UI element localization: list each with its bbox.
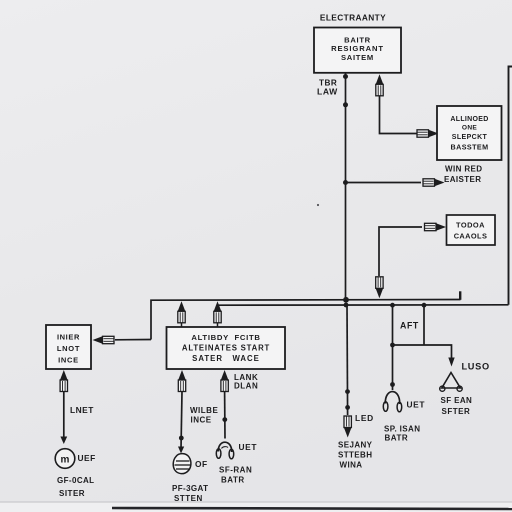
svg-text:LUSO: LUSO — [462, 362, 490, 372]
junction dot E1 — [345, 389, 350, 394]
svg-text:LAW: LAW — [317, 87, 338, 97]
junction dot B1 on upper bus — [343, 297, 349, 303]
stray mark — [317, 204, 319, 206]
junction dot A2 — [343, 102, 348, 107]
bottom border line — [112, 508, 512, 509]
svg-text:UET: UET — [239, 442, 258, 452]
wire drop at x392 to headset — [392, 305, 394, 390]
wire down from F10 — [181, 392, 182, 450]
svg-text:LNET: LNET — [70, 405, 94, 415]
block U1 battery resistant system — [314, 28, 401, 73]
svg-text:ONE: ONE — [462, 125, 477, 132]
label LANK DLAN — [234, 373, 258, 391]
svg-text:AFT: AFT — [400, 321, 419, 331]
fuse F5 with down arrow onto upper bus — [376, 277, 384, 299]
label PF-IGAT STTEN — [172, 484, 208, 503]
wire toda branch — [379, 227, 422, 276]
block U5 altibdy alternates sater — [167, 327, 286, 369]
svg-text:SLEPCKT: SLEPCKT — [452, 134, 488, 141]
junction dot E3 — [390, 343, 395, 348]
svg-text:BASSTEM: BASSTEM — [451, 143, 489, 152]
svg-text:STTEBH: STTEBH — [338, 451, 372, 460]
svg-text:WILBE: WILBE — [190, 406, 218, 415]
stub wire F8 to U5 — [181, 323, 183, 327]
svg-text:INIER: INIER — [57, 333, 80, 342]
fuse F1 with up arrow under U1 — [376, 74, 384, 96]
svg-text:SITER: SITER — [59, 489, 85, 498]
sensor S1 circle with lines — [173, 454, 191, 474]
fuse F10 with up arrow under U5 left — [178, 370, 186, 392]
label SP-ISAN BATR — [384, 425, 420, 443]
arrow down to T1 — [448, 358, 454, 367]
junction dot E4 — [390, 382, 395, 387]
fuse F3 with right arrow win red — [423, 179, 445, 187]
right border frame — [509, 67, 512, 305]
label SETANY STTEBH WINA — [338, 441, 373, 470]
wire drop at x424 — [423, 305, 425, 345]
fuse F4 with right arrow into U3 — [425, 223, 447, 231]
svg-text:ALLINOED: ALLINOED — [450, 116, 488, 123]
headset J2 — [383, 392, 401, 412]
svg-text:INCE: INCE — [58, 356, 79, 365]
label GF-OCAL SITER — [57, 476, 94, 498]
svg-text:SATER WACE: SATER WACE — [192, 354, 260, 363]
arrow down to sensor — [178, 447, 184, 454]
junction dot E2 — [345, 405, 350, 410]
svg-text:TODOA: TODOA — [456, 221, 485, 230]
svg-text:EAISTER: EAISTER — [444, 175, 481, 184]
fuse F12 with down arrow LED drop — [344, 416, 352, 438]
wire branch to luso — [393, 345, 452, 358]
block U3 toda caaols — [447, 215, 496, 245]
meter M1 circle m — [55, 449, 75, 469]
wire upper bus — [151, 300, 461, 340]
stub wire F9 to U5 — [217, 323, 219, 327]
junction dot C2 on lower bus — [390, 303, 395, 308]
svg-text:ALTIBDY FCITB: ALTIBDY FCITB — [191, 333, 260, 342]
svg-text:WINA: WINA — [340, 461, 363, 470]
fuse F2 with right arrow into U2 — [417, 130, 439, 138]
wire vertical main left bus — [345, 73, 347, 300]
paper edge strip bottom — [0, 502, 512, 512]
svg-text:INCE: INCE — [191, 416, 212, 425]
svg-text:DLAN: DLAN — [234, 382, 258, 391]
svg-text:ALTEINATES START: ALTEINATES START — [182, 344, 270, 353]
block U2 allowed one slepckt basstem — [437, 106, 502, 160]
wire from F1 down and right to U2 — [380, 96, 438, 134]
label TBR LAW — [317, 79, 338, 97]
fuse F6 with left arrow into U4 — [93, 336, 115, 344]
svg-text:SFTER: SFTER — [442, 407, 471, 416]
junction dot A3 — [343, 180, 348, 185]
svg-text:m: m — [61, 455, 70, 466]
label WILBE INCE — [190, 406, 218, 425]
svg-text:LED: LED — [355, 413, 374, 423]
junction dot C1 on lower bus — [344, 303, 349, 308]
svg-text:RESIGRANT: RESIGRANT — [331, 44, 384, 53]
svg-text:LNOT: LNOT — [57, 344, 80, 353]
svg-text:SAITEM: SAITEM — [341, 53, 374, 62]
fuse F9 with up arrow onto upper bus — [214, 301, 222, 323]
label SF-RAN BATR — [219, 466, 252, 485]
svg-text:SP. ISAN: SP. ISAN — [384, 425, 420, 434]
arrow down to lamp — [60, 437, 67, 445]
junction dot D1 — [179, 436, 184, 441]
svg-text:OF: OF — [195, 459, 208, 469]
svg-text:UEF: UEF — [78, 453, 96, 463]
junction dot A1 — [343, 74, 348, 79]
svg-text:SEJANY: SEJANY — [338, 441, 373, 450]
svg-text:STTEN: STTEN — [174, 494, 203, 503]
label WIN RED EAISTER — [444, 165, 482, 185]
svg-text:ELECTRAANTY: ELECTRAANTY — [320, 13, 386, 23]
svg-text:UET: UET — [407, 400, 426, 410]
svg-text:WIN RED: WIN RED — [445, 165, 482, 174]
svg-text:GF-0CAL: GF-0CAL — [57, 476, 94, 485]
wire left drop to inier box — [115, 339, 151, 341]
buzzer T1 triangle — [440, 373, 463, 392]
block U4 inier lnot ince — [46, 325, 91, 369]
svg-text:SF-RAN: SF-RAN — [219, 466, 252, 475]
end tick on upper bus — [459, 291, 461, 300]
wire drop from buses at x347 — [346, 305, 349, 415]
svg-text:SF EAN: SF EAN — [441, 396, 473, 405]
svg-text:CAAOLS: CAAOLS — [454, 232, 488, 241]
junction dot C3 on lower bus — [422, 303, 427, 308]
svg-text:PF-3GAT: PF-3GAT — [172, 484, 208, 493]
fuse F7 with up arrow under U4 — [60, 370, 68, 392]
fuse F8 with up arrow onto upper bus — [178, 301, 186, 323]
label SF-EAN SITER — [441, 396, 473, 416]
wire down from F11 — [224, 392, 226, 439]
svg-text:BATR: BATR — [221, 476, 245, 485]
wire lower bus — [218, 304, 509, 306]
svg-text:BATR: BATR — [385, 434, 409, 443]
fuse F11 with up arrow under U5 right — [221, 370, 229, 392]
wire down from F7 to lamp — [63, 392, 65, 438]
junction dot D2 — [222, 417, 227, 422]
headset J1 — [216, 442, 233, 459]
faint paper edge line — [0, 501, 512, 503]
wire win red branch — [346, 182, 422, 184]
